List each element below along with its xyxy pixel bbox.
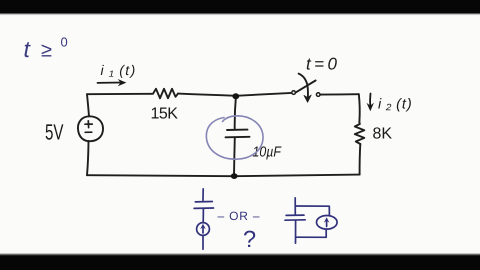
alt1 current source circle [197, 223, 210, 236]
alt1 capacitor bottom plate [194, 207, 213, 209]
voltage source V1 circle [78, 116, 103, 141]
bottom letterbox bar [0, 253, 480, 254]
svg-text:≥: ≥ [41, 40, 52, 62]
svg-text:15K: 15K [151, 106, 179, 123]
alt2 capacitor bottom plate [285, 219, 305, 221]
wire: below 8K down to bottom-right corner [359, 144, 362, 175]
switch right contact [316, 93, 320, 97]
alt2 cap bottom lead [295, 220, 297, 243]
alt2 cap top lead [294, 198, 296, 215]
alt1 capacitor top plate [195, 201, 212, 203]
blue highlight ellipse around capacitor [206, 116, 263, 159]
resistor R1 15K zigzag [150, 89, 178, 99]
svg-text:0: 0 [61, 35, 68, 50]
alt1 middle lead [202, 208, 204, 222]
current arrow i2 (down) [369, 94, 371, 107]
alt2 top wire across [296, 206, 330, 216]
wire: resistor to capacitor top node [178, 94, 236, 96]
switch left contact [292, 91, 296, 95]
alt2 capacitor top plate [286, 214, 304, 216]
wire: capacitor node to switch left contact [236, 93, 292, 96]
svg-text:– OR –: – OR – [218, 209, 261, 223]
svg-text:?: ? [243, 226, 256, 252]
alt2 current source ellipse [317, 216, 338, 230]
current arrow i1 [98, 82, 122, 84]
switch blade [296, 81, 316, 93]
voltage source polarity - [85, 131, 92, 133]
label t >= 0 (blue, top-left) [24, 35, 68, 63]
wire: source top up to top-left corner [87, 94, 89, 116]
alt2 source arrow [326, 220, 328, 227]
wire: bottom from right corner to capacitor bottom node [234, 175, 360, 177]
top letterbox bar [0, 0, 480, 13]
svg-text:8K: 8K [373, 126, 393, 143]
alt1 top lead [202, 189, 204, 201]
svg-text:t = 0: t = 0 [306, 55, 337, 74]
wire: top left segment from source top corner to resistor [87, 93, 150, 95]
svg-text:5V: 5V [45, 120, 64, 145]
capacitor C1 bottom lead [233, 137, 236, 176]
switch actuation arrow (curved, pointing down) [299, 74, 308, 100]
capacitor C1 bottom plate [226, 136, 250, 139]
voltage source polarity + [85, 121, 92, 133]
capacitor C1 top lead [235, 96, 236, 130]
alt1 source arrow [202, 226, 204, 233]
node: capacitor top junction dot [232, 93, 239, 99]
wire: switch right contact to top-right corner [320, 93, 359, 95]
alt1 bottom lead [202, 236, 204, 250]
switch arrowhead [304, 95, 311, 102]
wire: right vertical down to resistor R2 [358, 94, 361, 122]
capacitor C1 top plate [227, 129, 248, 131]
ALT circuit 1 (series cap + current source, blue) [194, 189, 213, 250]
svg-text:i ₁ (t): i ₁ (t) [101, 62, 137, 78]
alt2 bottom wire across [296, 229, 326, 237]
resistor R2 8K zigzag (vertical) [355, 122, 365, 144]
wire: left vertical from bottom corner up to source bottom [87, 141, 89, 175]
svg-text:i ₂ (t): i ₂ (t) [378, 97, 413, 113]
ALT circuit 2 (parallel cap + current source, blue) [285, 198, 337, 243]
wire: bottom from capacitor node to bottom-left corner [87, 175, 234, 176]
node: capacitor bottom junction dot [231, 173, 238, 179]
